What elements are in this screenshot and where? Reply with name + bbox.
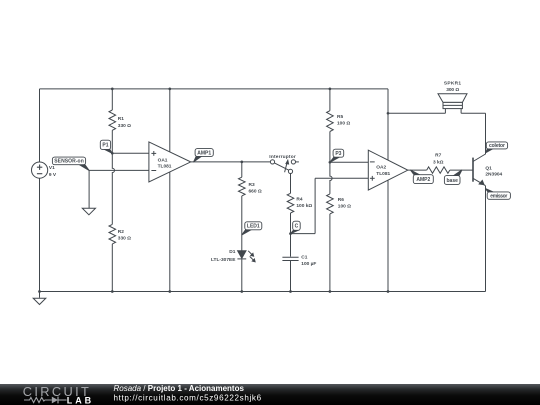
svg-text:P1: P1 xyxy=(102,143,108,149)
svg-text:R6: R6 xyxy=(338,197,344,203)
svg-text:R1: R1 xyxy=(118,116,124,122)
svg-text:R4: R4 xyxy=(296,196,302,202)
svg-text:2N3904: 2N3904 xyxy=(485,172,502,178)
svg-text:SENSOR-on: SENSOR-on xyxy=(54,159,84,165)
svg-text:LED1: LED1 xyxy=(247,224,260,230)
svg-text:100 Ω: 100 Ω xyxy=(337,121,350,127)
svg-text:100 Ω: 100 Ω xyxy=(338,204,351,210)
svg-text:emissor: emissor xyxy=(490,193,507,199)
svg-text:R3: R3 xyxy=(249,182,255,188)
svg-text:D1: D1 xyxy=(229,249,235,255)
svg-text:TL081: TL081 xyxy=(158,164,172,170)
svg-text:base: base xyxy=(446,178,458,184)
svg-text:660 Ω: 660 Ω xyxy=(249,189,262,195)
svg-text:R5: R5 xyxy=(337,114,343,120)
svg-text:V1: V1 xyxy=(49,165,55,171)
svg-text:LAB: LAB xyxy=(67,395,92,405)
svg-text:R7: R7 xyxy=(435,153,441,159)
svg-text:9 V: 9 V xyxy=(49,172,57,178)
svg-text:coletor: coletor xyxy=(489,143,505,149)
svg-text:P3: P3 xyxy=(335,151,341,157)
svg-text:LTL-307EE: LTL-307EE xyxy=(211,257,236,263)
svg-text:C1: C1 xyxy=(301,254,307,260)
svg-text:Interruptor: Interruptor xyxy=(269,154,296,160)
svg-text:3 kΩ: 3 kΩ xyxy=(433,160,444,166)
svg-text:C: C xyxy=(295,224,299,230)
svg-text:OA1: OA1 xyxy=(158,157,168,163)
svg-text:100 µF: 100 µF xyxy=(301,261,316,267)
svg-text:TL081: TL081 xyxy=(376,171,390,177)
svg-text:AMP1: AMP1 xyxy=(197,150,211,156)
svg-text:100 kΩ: 100 kΩ xyxy=(296,203,312,209)
svg-text:330 Ω: 330 Ω xyxy=(118,123,131,129)
svg-text:OA2: OA2 xyxy=(376,164,386,170)
svg-text:Q1: Q1 xyxy=(485,165,492,171)
svg-text:R2: R2 xyxy=(118,229,124,235)
svg-text:300 Ω: 300 Ω xyxy=(446,87,459,93)
svg-text:Rosada / Projeto 1 - Acionamen: Rosada / Projeto 1 - Acionamentos xyxy=(114,384,245,393)
svg-text:330 Ω: 330 Ω xyxy=(118,236,131,242)
svg-text:AMP2: AMP2 xyxy=(416,177,430,183)
svg-text:SPKR1: SPKR1 xyxy=(444,81,462,87)
svg-text:http://circuitlab.com/c5z96222: http://circuitlab.com/c5z96222shjk6 xyxy=(114,394,262,403)
